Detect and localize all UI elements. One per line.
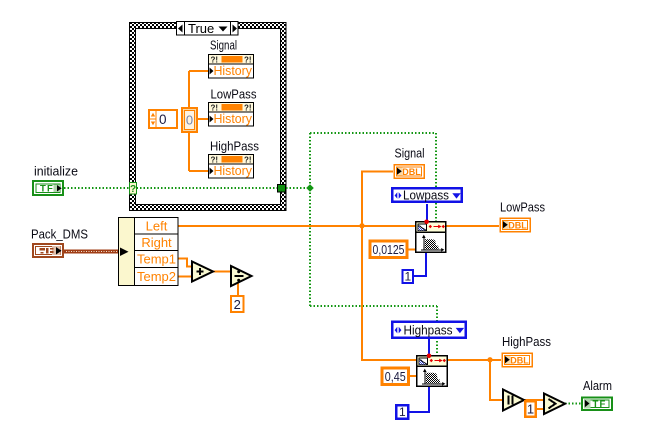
wire constant 2 to divide (237, 281, 239, 295)
svg-text:HighPass: HighPass (502, 334, 551, 349)
property node LowPass History (209, 103, 254, 127)
wire boolean inside case to tunnel (137, 187, 278, 189)
svg-text:?: ? (130, 184, 136, 195)
constant 1 (filter1) (403, 270, 414, 284)
indicator DBL Signal (394, 165, 424, 179)
svg-text:initialize: initialize (34, 164, 78, 179)
wire 1 to filter1 (blue) (413, 253, 426, 276)
svg-text:DBL: DBL (508, 220, 527, 231)
svg-text:Signal: Signal (395, 146, 425, 161)
svg-text:History: History (214, 64, 253, 78)
function express VI filter1 (lowpass) (416, 222, 446, 253)
svg-text:LowPass: LowPass (211, 87, 257, 102)
wire 0,45 to filter2 (409, 375, 416, 377)
svg-text:Alarm: Alarm (583, 378, 612, 393)
wire 0,0125 to filter1 (408, 249, 415, 251)
svg-text:Highpass: Highpass (404, 323, 453, 338)
wire chart history branch vertical (188, 71, 190, 171)
wire signal bus vertical (362, 171, 416, 360)
wire Pack_DMS cluster (brown) (64, 249, 118, 253)
constant enum Lowpass (392, 188, 461, 203)
wire boolean tunnel to junction (286, 187, 307, 189)
svg-text:Right: Right (141, 235, 172, 250)
svg-text:0,45: 0,45 (385, 369, 406, 384)
property node Signal History (209, 55, 254, 79)
wire to Signal History (189, 70, 208, 72)
node coercion dot filter1 (424, 220, 429, 225)
property node HighPass History (209, 155, 254, 179)
constant enum Highpass (392, 322, 465, 338)
svg-text:Lowpass: Lowpass (403, 188, 449, 203)
svg-text:0: 0 (159, 112, 167, 127)
wire enum1 to filter1 (blue) (426, 204, 428, 221)
svg-text:DBL: DBL (510, 355, 529, 366)
constant numeric 0 with inc/dec (149, 110, 177, 128)
wire boolean comparator output to Alarm (565, 403, 581, 405)
indicator DBL LowPass (500, 218, 530, 232)
wire to LowPass History (198, 118, 208, 120)
wire Left signal bus horizontal (178, 225, 499, 227)
constant 2 (231, 296, 244, 312)
node coercion dot filter2 (427, 354, 432, 359)
wire Temp2 to add (178, 276, 192, 278)
function divide (231, 266, 252, 286)
svg-text:1: 1 (404, 270, 411, 284)
svg-text:0,0125: 0,0125 (373, 242, 405, 257)
svg-text:Left: Left (146, 219, 168, 234)
node wire junction dot (highpass out) (487, 357, 492, 362)
svg-text:Temp2: Temp2 (137, 269, 176, 284)
node history feed junction box 0 (182, 108, 197, 132)
wire constant 1 to greater (537, 408, 544, 410)
wire 1 to filter2 (blue) (409, 387, 429, 412)
function greater than (544, 394, 565, 415)
svg-text:Pack_DMS: Pack_DMS (31, 227, 88, 242)
svg-text:HighPass: HighPass (210, 139, 259, 154)
wire abs to greater (524, 399, 544, 401)
wire boolean bottom branch to filter2 reset (310, 306, 437, 358)
case structure border (True case) (130, 23, 287, 211)
node wire junction dot (signal bus) (359, 223, 364, 228)
wire add to divide (213, 271, 231, 273)
indicator boolean Alarm TF (582, 398, 612, 411)
wire boolean initialize to case selector (green dotted) (64, 187, 129, 189)
svg-text:1: 1 (527, 402, 534, 417)
function absolute value (503, 390, 524, 411)
constant 0,45 (382, 368, 409, 385)
function express VI filter2 (highpass) (417, 356, 448, 387)
wire boolean vertical trunk (309, 133, 311, 306)
wire Temp1 to add (178, 259, 192, 267)
svg-text:TF: TF (40, 184, 54, 195)
svg-text:TF: TF (593, 399, 607, 410)
svg-text:True: True (188, 21, 214, 36)
svg-text:Signal: Signal (210, 38, 237, 53)
svg-text:History: History (214, 164, 253, 178)
svg-text:1: 1 (399, 405, 406, 419)
indicator DBL HighPass (502, 353, 532, 367)
constant 1 (filter2) (396, 405, 408, 419)
control cluster Pack_DMS (33, 244, 63, 257)
svg-text:0: 0 (186, 113, 193, 128)
wire to HighPass History (189, 170, 208, 172)
svg-text:LowPass: LowPass (500, 200, 545, 215)
function add (192, 262, 213, 282)
wire highpass to abs (490, 360, 503, 400)
svg-text:History: History (214, 112, 253, 126)
constant 0,0125 (370, 241, 407, 258)
node case selector ? terminal (130, 183, 137, 195)
control boolean initialize TF (33, 181, 63, 195)
node unbundle by name (119, 218, 179, 286)
svg-text:DBL: DBL (402, 167, 421, 178)
wire enum2 to filter2 (blue) (428, 339, 430, 355)
svg-text:2: 2 (234, 297, 241, 312)
node boolean wire junction diamond (306, 184, 314, 192)
wire boolean top branch to filter1 reset (310, 133, 436, 223)
wire filter2 output to HighPass (448, 359, 501, 361)
node case tunnel (boolean out) (278, 185, 286, 193)
svg-text:Temp1: Temp1 (137, 252, 176, 267)
node case selector label True (177, 21, 239, 36)
constant 1 (greater) (525, 401, 536, 417)
